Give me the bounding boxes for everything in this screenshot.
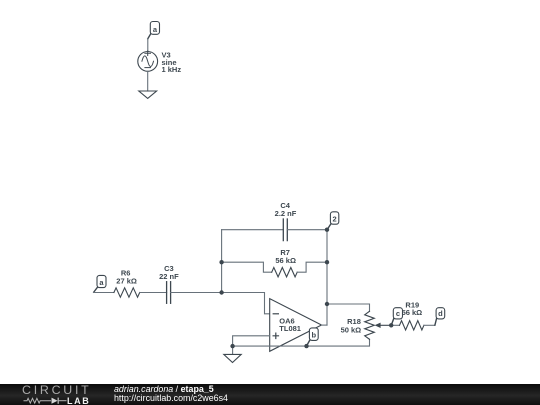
svg-text:TL081: TL081 bbox=[279, 324, 301, 333]
node b flag bbox=[307, 328, 319, 346]
svg-text:56 kΩ: 56 kΩ bbox=[402, 308, 423, 317]
ground (below V3) bbox=[139, 91, 157, 98]
junction dot (R7 right) bbox=[325, 260, 329, 264]
resistor R7 bbox=[272, 268, 298, 277]
voltage source V3 (sine) bbox=[138, 51, 158, 71]
R6 label texts bbox=[116, 268, 137, 285]
capacitor C4 bbox=[283, 219, 287, 241]
V3 label texts bbox=[162, 51, 182, 75]
node d flag bbox=[435, 308, 445, 325]
footer black bar bbox=[0, 384, 540, 405]
svg-text:22 nF: 22 nF bbox=[159, 272, 179, 281]
svg-text:d: d bbox=[438, 309, 443, 318]
svg-text:2.2 nF: 2.2 nF bbox=[275, 209, 297, 218]
junction dot (node b tap) bbox=[304, 344, 308, 348]
svg-text:50 kΩ: 50 kΩ bbox=[341, 325, 362, 334]
ground (below op-amp) bbox=[224, 354, 241, 362]
wire feedback left vertical bbox=[221, 230, 223, 293]
footer credit line 2 bbox=[114, 394, 228, 403]
op-amp plus input symbol bbox=[273, 333, 278, 338]
wire node a to R6 bbox=[94, 292, 114, 294]
junction dot (R7 branch left) bbox=[219, 260, 223, 264]
node c flag bbox=[391, 308, 402, 325]
wire R19 right lead bbox=[424, 324, 435, 326]
wire op-amp plus input to ground junction bbox=[233, 336, 270, 346]
wire R7 branch right lead bbox=[297, 262, 327, 272]
wire wiper to R19 bbox=[391, 324, 399, 326]
CircuitLab logo LAB bbox=[67, 397, 90, 405]
op-amp OA6 bbox=[270, 299, 322, 352]
wire V3 minus terminal to ground bbox=[147, 71, 149, 91]
junction dot (ground node) bbox=[230, 344, 234, 348]
CircuitLab logo CIRCUIT bbox=[22, 385, 92, 395]
node 2 flag bbox=[327, 212, 339, 230]
wire R6 to C3 bbox=[140, 292, 167, 294]
wire C4 to right vertical bbox=[287, 229, 327, 231]
R18 label texts bbox=[341, 317, 362, 335]
R18 wiper arrow bbox=[375, 323, 392, 328]
svg-text:56 kΩ: 56 kΩ bbox=[275, 256, 296, 265]
resistor R19 bbox=[400, 321, 424, 330]
svg-text:1 kHz: 1 kHz bbox=[162, 65, 182, 74]
wire R7 branch left lead bbox=[222, 262, 272, 272]
svg-text:b: b bbox=[312, 331, 317, 340]
wire stub to ground bbox=[232, 346, 234, 354]
op-amp label texts bbox=[279, 317, 301, 334]
wire op-amp output bbox=[322, 324, 328, 326]
potentiometer R18 (vertical resistor) bbox=[365, 311, 375, 339]
wire node a to V3 plus terminal bbox=[147, 39, 149, 52]
CircuitLab logo resistor-diode motif bbox=[22, 396, 72, 405]
capacitor C3 bbox=[167, 282, 171, 304]
R19 label texts bbox=[402, 300, 423, 317]
C3 label texts bbox=[159, 264, 179, 281]
node a flag (left, input) bbox=[94, 275, 106, 292]
svg-text:c: c bbox=[396, 309, 400, 318]
junction dot (top corner at node 2) bbox=[325, 228, 329, 232]
wire feedback top to C4 bbox=[222, 229, 284, 231]
svg-text:27 kΩ: 27 kΩ bbox=[116, 277, 137, 286]
junction dot (R18 top branch) bbox=[325, 302, 329, 306]
wire right vertical (node 2 / output net) bbox=[326, 230, 328, 325]
svg-text:2: 2 bbox=[333, 215, 337, 224]
C4 label texts bbox=[275, 201, 297, 218]
resistor R6 bbox=[114, 288, 140, 297]
junction dot (wiper / node c / R19) bbox=[389, 323, 393, 327]
footer credit line 1 bbox=[114, 385, 214, 394]
wire bottom net (ground to R18 bottom) bbox=[233, 339, 370, 346]
op-amp minus input symbol bbox=[273, 313, 278, 315]
wire R18 top lead bbox=[327, 304, 370, 311]
wire C3 to op-amp inverting input (with bend) bbox=[171, 293, 270, 314]
R7 label texts bbox=[275, 248, 296, 265]
junction dot (feedback tap on input wire) bbox=[219, 290, 223, 294]
node a flag (top, at V3) bbox=[148, 22, 160, 39]
